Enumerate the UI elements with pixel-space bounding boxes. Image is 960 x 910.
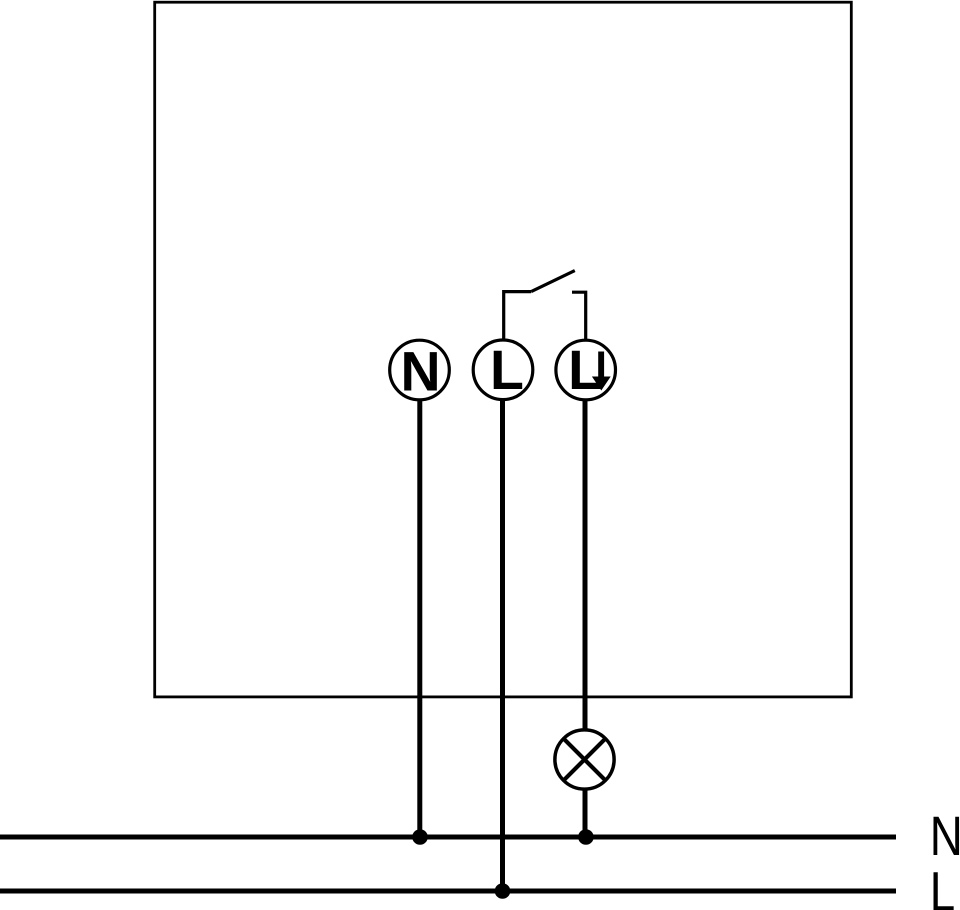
svg-text:N: N <box>400 340 440 402</box>
svg-text:L: L <box>490 339 524 401</box>
terminal L-switched <box>556 340 616 400</box>
switch blade <box>531 271 575 292</box>
N bus line <box>0 835 896 840</box>
L bus line <box>0 889 896 894</box>
svg-text:L: L <box>568 339 602 401</box>
wire: lamp to N bus <box>583 788 588 838</box>
arrow down inside terminal <box>592 352 611 391</box>
wire: terminal L drop to L bus <box>500 399 505 891</box>
device outline rectangle <box>155 2 852 697</box>
svg-text:L: L <box>930 860 955 910</box>
lamp <box>555 730 614 789</box>
wire: switch contact to terminal L-arrow <box>572 292 586 341</box>
wire: terminal L-switched drop to lamp <box>583 399 588 732</box>
terminal L <box>473 340 533 400</box>
wire: switch feed from terminal L <box>504 292 532 341</box>
svg-text:N: N <box>930 805 960 867</box>
wire: terminal N drop to N bus <box>417 399 422 837</box>
junction dot: L drop on L bus <box>495 883 511 899</box>
junction dot: N drop on N bus <box>412 829 428 845</box>
terminal N <box>390 340 450 400</box>
junction dot: lamp wire on N bus <box>578 829 594 845</box>
